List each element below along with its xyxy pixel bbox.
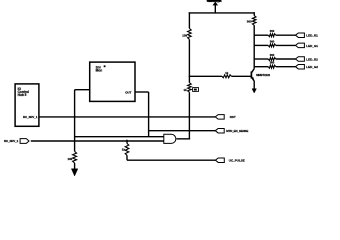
wire to ground arrow [74,163,76,170]
wire R7 top stub [126,140,128,144]
wire LED row 3 left [254,58,268,60]
wire R7 to pulse [126,155,128,160]
label net LED_G2 [306,65,318,69]
label U2 pin OUT [125,90,131,94]
label net LED_R2 [306,57,318,61]
label R4 value 1k [183,88,187,92]
transistor Q1 [251,69,254,82]
label R11 value 360 [270,61,275,65]
label U1 name [18,87,29,97]
label U1 pin RC_SRV_1 [23,115,38,119]
net tag box [193,88,199,92]
wire left rail lower [188,92,190,139]
wire left drop [74,90,76,152]
wire left rail upper [188,12,190,28]
resistor R11 [268,65,275,68]
resistor R7 [125,143,129,155]
label U2 name [96,65,106,72]
connector LED row 3 [296,57,305,62]
connector RST [215,115,224,120]
label R8 value 360 [270,29,275,33]
label R6 value 10k [67,157,72,161]
svg-text:360: 360 [270,39,275,43]
wire base [189,75,251,77]
resistor R2 [188,28,192,39]
svg-text:LED_G2: LED_G2 [306,65,318,69]
svg-text:RC_SRV_1: RC_SRV_1 [4,139,19,143]
svg-text:360: 360 [270,53,275,57]
connector LED row 2 [296,43,305,48]
svg-text:Hub 5: Hub 5 [18,93,27,97]
label R9 value 360 [270,39,275,43]
gate U3 AND [164,134,176,143]
resistor R6 [73,151,77,163]
label R2 value 10k [182,33,187,37]
label net LED_R1 [306,34,318,38]
svg-text:MTR_EN_SENSE: MTR_EN_SENSE [226,129,248,133]
wire right rail [253,25,255,68]
wire LED row 2 right [276,44,296,46]
resistor R3 [252,16,256,26]
connector MTR sense [215,128,224,133]
power arrow up [213,2,217,13]
label net RC_SRV_1 left [4,139,19,143]
label R5 value 1k [225,71,228,75]
svg-text:OUT: OUT [125,90,131,94]
label R10 value 360 [270,53,275,57]
svg-text:360: 360 [247,19,252,23]
wire LED row 4 left [254,66,268,68]
svg-text:1k: 1k [122,148,126,152]
svg-text:RST: RST [230,115,236,119]
resistor R10 [268,58,275,61]
wire left rail middle [188,39,190,82]
wire LED row 4 right [276,66,296,68]
label Q1 MMBT2222 [256,73,270,77]
label net UC_PULSE [229,158,245,162]
svg-text:MMBT2222: MMBT2222 [256,73,270,77]
svg-text:RC_SRV_1: RC_SRV_1 [23,115,38,119]
IC U1 box [15,84,39,126]
svg-text:Mon: Mon [96,69,103,73]
svg-text:LED_R1: LED_R1 [306,34,318,38]
resistor R8 [268,34,275,37]
wire gate input A [75,136,165,138]
wire net3 to pulse connector [127,159,215,161]
svg-text:UC_PULSE: UC_PULSE [229,158,245,162]
resistor R9 [268,44,275,47]
wire top rail [189,12,255,14]
connector LED row 1 [296,33,305,38]
label net LED_G1 [306,44,318,48]
svg-text:10k: 10k [67,157,72,161]
wire LED row 3 right [276,58,296,60]
wire LED row 2 left [254,44,268,46]
label R7 value 1k [122,148,126,152]
wire LED row 1 right [276,34,296,36]
resistor R5 [222,75,232,78]
connector RC_SRV input [20,139,29,144]
label net RST [230,115,236,119]
power flag down at emitter [252,89,256,93]
wire net2 to sense connector [149,130,216,132]
svg-text:1k: 1k [225,71,228,75]
svg-text:360: 360 [270,29,275,33]
wire gate output [176,138,190,140]
label net MTR_EN_SENSE [226,129,248,133]
svg-text:LED_R2: LED_R2 [306,57,318,61]
svg-text:10k: 10k [182,33,187,37]
wire right rail stub [253,12,255,15]
wire U2 input pin [75,89,90,91]
wire riser from U2 [148,92,150,137]
svg-text:LED_G1: LED_G1 [306,44,318,48]
label R3 value 360 [247,19,252,23]
connector LED row 4 [296,64,305,69]
power flag VBATT (label cut off at top edge) [206,0,222,3]
wire emitter down [253,81,255,89]
svg-text:360: 360 [270,61,275,65]
svg-text:1k: 1k [183,88,187,92]
resistor R4 [188,83,192,93]
power flag down ground [71,169,77,176]
wire U2 output pin [135,91,149,93]
IC U2 box [90,62,135,101]
wire net1 to RST [39,116,215,118]
wire gate input B [31,140,164,142]
connector UC_PULSE [215,158,224,163]
wire LED row 1 left [254,34,268,36]
